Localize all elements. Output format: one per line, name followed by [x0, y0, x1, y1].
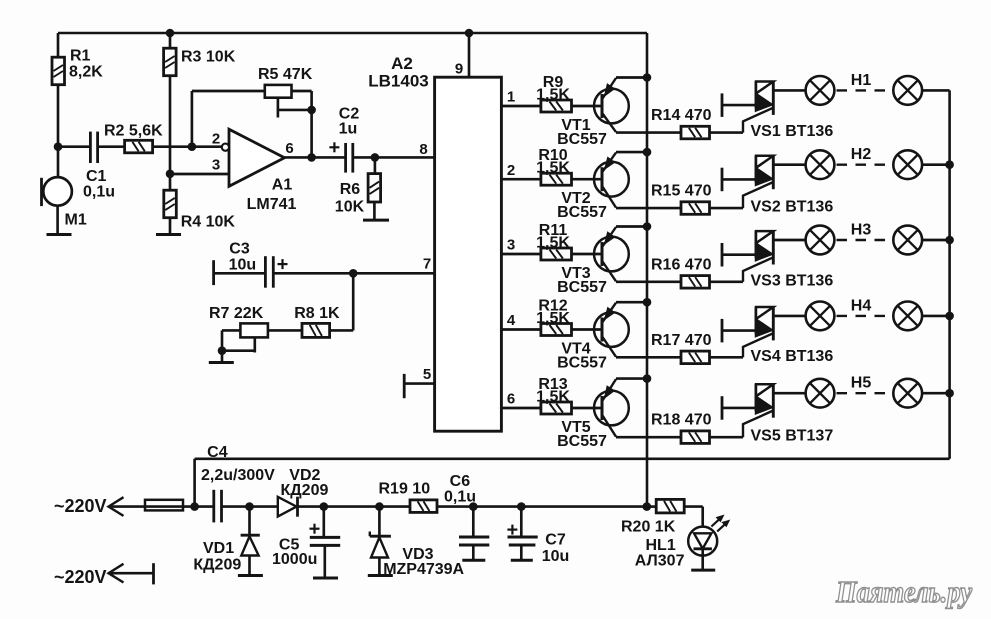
svg-text:8,2K: 8,2K: [69, 64, 103, 81]
svg-text:BC557: BC557: [557, 279, 607, 296]
capacitor C3: [264, 256, 267, 288]
svg-text:10u: 10u: [229, 257, 257, 274]
wire VT5 emitter to rail: [616, 377, 647, 380]
wire right supply rail vertical: [646, 33, 649, 507]
svg-text:4: 4: [507, 312, 516, 329]
wire VT4 emitter to rail: [616, 301, 647, 304]
wire R9 to VT1 base: [572, 105, 604, 108]
svg-text:BC557: BC557: [557, 355, 607, 372]
svg-text:1: 1: [507, 89, 515, 106]
capacitor C2: [344, 143, 347, 173]
ground under R4: [156, 233, 181, 236]
dashed wire H2: [837, 163, 892, 165]
svg-text:H5: H5: [851, 375, 872, 392]
svg-text:BC557: BC557: [557, 204, 607, 221]
resistor R19: [410, 500, 437, 513]
wire VT2 emitter to rail: [616, 151, 647, 154]
svg-text:1,5K: 1,5K: [536, 389, 570, 406]
svg-text:АЛ307: АЛ307: [635, 552, 685, 569]
node R6: [371, 153, 380, 162]
wire R16 to gate: [710, 280, 744, 283]
node emitter rail 1: [643, 73, 652, 82]
pin 5 stub: [404, 382, 434, 385]
resistor R20: [647, 505, 656, 508]
wire VT4 collector to R17: [616, 356, 681, 359]
svg-text:10K: 10K: [335, 199, 365, 216]
svg-text:H4: H4: [851, 297, 872, 314]
svg-text:VS5 BT137: VS5 BT137: [751, 428, 834, 445]
R5 wiper: [277, 98, 280, 118]
svg-text:9: 9: [455, 60, 463, 77]
svg-text:0,1u: 0,1u: [444, 488, 476, 505]
svg-text:1u: 1u: [339, 121, 358, 138]
transistor VT2: [594, 162, 629, 197]
svg-text:VS2 BT136: VS2 BT136: [751, 199, 834, 216]
node R5 wiper: [307, 106, 316, 115]
arrow terminal ~220V top: [109, 497, 124, 516]
resistor R5 (trimmer): [265, 85, 292, 98]
svg-text:LB1403: LB1403: [368, 72, 428, 91]
resistor R17: [681, 351, 710, 364]
capacitor C4: [195, 505, 214, 508]
LED HL1: [688, 527, 717, 556]
IC A2 LB1403: [435, 77, 502, 431]
resistor R11: [541, 248, 572, 260]
svg-text:C4: C4: [207, 444, 228, 461]
resistor R18: [681, 431, 710, 444]
capacitor C6: [472, 507, 475, 537]
resistor R8: [302, 323, 330, 337]
triac VS2: [755, 156, 758, 183]
node fuse / riser: [190, 502, 199, 511]
wire triac to lamp H5a: [773, 392, 806, 395]
svg-text:1,5K: 1,5K: [536, 160, 570, 177]
lamp H5a: [806, 379, 835, 408]
capacitor C5: [322, 507, 325, 538]
resistor R6: [374, 157, 377, 173]
wire lamp H3b to right rail: [922, 239, 950, 242]
wire R14 to gate: [710, 131, 744, 134]
wire IC pin 4: [501, 328, 541, 331]
svg-text:6: 6: [285, 140, 293, 157]
svg-text:R14 470: R14 470: [651, 107, 712, 124]
transistor VT4: [594, 312, 629, 347]
svg-text:R3 10K: R3 10K: [181, 49, 236, 66]
dashed wire H1: [837, 89, 892, 91]
wire R7 to ground: [222, 329, 240, 332]
wire M1 to C1: [58, 145, 90, 148]
lamp H2b: [893, 150, 922, 179]
svg-text:VD1: VD1: [203, 540, 234, 557]
diode VD2: [278, 497, 297, 517]
resistor R15: [681, 202, 710, 215]
zener VD3: [378, 507, 381, 537]
svg-text:5: 5: [423, 366, 431, 383]
lamp H3a: [806, 226, 835, 255]
svg-text:VS4 BT136: VS4 BT136: [751, 348, 834, 365]
svg-text:2: 2: [507, 162, 515, 179]
wire pin3: [170, 173, 229, 176]
wire C2 to pin 8: [353, 156, 435, 159]
resistor R12: [541, 324, 572, 336]
node C7: [517, 502, 526, 511]
wire C5 to VD3: [324, 505, 380, 508]
node R7 wiper ground: [218, 346, 227, 355]
svg-text:R4 10K: R4 10K: [181, 214, 236, 231]
svg-text:A2: A2: [391, 54, 413, 73]
wire VT2 collector to R15: [616, 207, 681, 210]
ground under R7: [209, 361, 234, 364]
ground under VD1: [238, 574, 263, 577]
ground under C7: [511, 559, 533, 562]
op-amp A1: [229, 129, 285, 186]
resistor R10: [541, 173, 572, 185]
wire R18 to gate: [710, 436, 744, 439]
plus C2: [329, 146, 339, 148]
lamp H4b: [893, 302, 922, 331]
resistor R13: [541, 402, 572, 414]
svg-text:1,5K: 1,5K: [536, 310, 570, 327]
svg-text:R8 1K: R8 1K: [294, 305, 340, 322]
LED arrows: [711, 518, 721, 527]
svg-text:8: 8: [419, 141, 427, 158]
wire VD3 to R19: [379, 505, 410, 508]
ground under VD3: [368, 574, 393, 577]
dashed wire H5: [837, 392, 892, 394]
node pin7 branch: [349, 269, 358, 278]
lamp H1b: [893, 76, 922, 105]
arrow terminal ~220V bottom: [109, 564, 124, 583]
svg-text:R15 470: R15 470: [651, 183, 712, 200]
lamp H4a: [806, 302, 835, 331]
lamp H3b: [893, 226, 922, 255]
transistor VT1: [594, 89, 629, 124]
terminal C3 left: [212, 260, 215, 285]
triac VS4: [755, 307, 758, 334]
node emitter rail 2: [643, 148, 652, 157]
svg-text:3: 3: [507, 237, 515, 254]
resistor R14: [681, 126, 710, 139]
wire R20 to HL1: [684, 505, 702, 508]
wire VT3 emitter to rail: [616, 225, 647, 228]
svg-text:~220V: ~220V: [54, 496, 107, 516]
node right rail H2: [945, 160, 954, 169]
wire R17 to gate: [710, 356, 744, 359]
resistor R9: [541, 100, 572, 112]
transistor VT5: [594, 391, 629, 426]
resistor R4: [164, 190, 177, 218]
wire R2 to op-amp pin2: [153, 145, 223, 148]
resistor R7 (trimmer): [240, 323, 268, 337]
terminal bar 220V: [152, 563, 155, 584]
svg-text:H2: H2: [851, 146, 872, 163]
wire IC pin 6: [501, 407, 541, 410]
node top wire / pin 9: [465, 29, 474, 38]
node emitter rail 3: [643, 222, 652, 231]
svg-text:R18 470: R18 470: [651, 412, 712, 429]
wire C7 to rail node: [521, 505, 647, 508]
resistor R1: [57, 33, 60, 57]
node VD1: [245, 502, 254, 511]
svg-text:R1: R1: [70, 48, 91, 65]
wire lamp H5b to right rail: [922, 392, 950, 395]
wire pin 9: [468, 33, 471, 77]
svg-text:H3: H3: [851, 222, 872, 239]
node emitter rail 4: [643, 298, 652, 307]
wire IC pin 2: [501, 178, 541, 181]
R7 wiper: [253, 337, 256, 352]
svg-text:C7: C7: [545, 531, 566, 548]
resistor R3: [169, 33, 172, 48]
triac VS3: [755, 231, 758, 258]
wire triac to lamp H2a: [773, 163, 806, 166]
wire R13 to VT5 base: [572, 407, 604, 410]
wire triac to lamp H1a: [773, 89, 806, 92]
plus C7: [507, 528, 517, 530]
diode VD1: [248, 507, 251, 536]
plus C3: [278, 263, 288, 265]
node VD3: [375, 502, 384, 511]
svg-text:КД209: КД209: [193, 557, 241, 574]
wire R10 to VT2 base: [572, 178, 604, 181]
resistor R2: [125, 140, 153, 153]
node right rail H4: [945, 312, 954, 321]
wire mains return line: [195, 457, 950, 460]
svg-text:R17 470: R17 470: [651, 332, 712, 349]
fuse FU1: [145, 500, 183, 511]
wire IC pin 1: [501, 105, 541, 108]
node op-amp output: [307, 153, 316, 162]
wire triac to lamp H4a: [773, 315, 806, 318]
svg-text:1000u: 1000u: [272, 551, 317, 568]
svg-text:R7 22K: R7 22K: [209, 305, 264, 322]
svg-text:10u: 10u: [542, 548, 570, 565]
node emitter rail 5: [643, 374, 652, 383]
wire R8 to R7: [268, 329, 302, 332]
node inverting input: [188, 142, 197, 151]
svg-text:BC557: BC557: [557, 433, 607, 450]
wire R5 to output: [292, 90, 312, 93]
svg-text:R2 5,6K: R2 5,6K: [104, 123, 163, 140]
node right rail H3: [945, 236, 954, 245]
wire R19 to C6: [437, 505, 473, 508]
svg-text:1,5K: 1,5K: [536, 235, 570, 252]
wire R12 to VT4 base: [572, 328, 604, 331]
wire R11 to VT3 base: [572, 253, 604, 256]
wire VD1 to VD2: [250, 505, 278, 508]
wire output to C2: [285, 156, 346, 159]
svg-text:~220V: ~220V: [54, 567, 107, 587]
node R3 R4 pin3: [166, 170, 175, 179]
ground under M1: [47, 233, 72, 236]
svg-text:R6: R6: [340, 181, 361, 198]
wire VT3 collector to R16: [616, 280, 681, 283]
wire to fuse: [109, 505, 145, 508]
svg-text:C3: C3: [229, 241, 250, 258]
svg-text:1,5K: 1,5K: [536, 87, 570, 104]
svg-text:LM741: LM741: [247, 196, 297, 213]
wire riser to return line: [193, 459, 196, 507]
svg-text:R19 10: R19 10: [379, 481, 431, 498]
wire to terminal bar: [109, 572, 154, 575]
wire C3 to pin 7: [273, 272, 434, 275]
svg-text:7: 7: [423, 255, 431, 272]
inverting input circle: [222, 144, 229, 151]
dashed wire H3: [837, 239, 892, 241]
wire VT1 emitter to rail: [616, 76, 647, 79]
svg-text:2: 2: [212, 130, 220, 147]
wire IC pin 3: [501, 253, 541, 256]
svg-text:КД209: КД209: [281, 482, 329, 499]
svg-text:3: 3: [212, 157, 220, 174]
svg-text:Паятель.ру: Паятель.ру: [835, 574, 972, 609]
svg-text:R16 470: R16 470: [651, 256, 712, 273]
wire lamp H2b to right rail: [922, 163, 950, 166]
ground under C5: [313, 577, 338, 580]
transistor VT3: [594, 237, 629, 272]
ground under HL1: [691, 569, 715, 572]
svg-text:BC557: BC557: [557, 131, 607, 148]
node M1/C1/R1: [54, 142, 63, 151]
node supply rail / DC bus: [643, 502, 652, 511]
svg-text:C1: C1: [86, 168, 107, 185]
ground under C6: [462, 559, 485, 562]
terminal pin 5: [403, 374, 406, 398]
lamp H5b: [893, 379, 922, 408]
wire VT5 collector to R18: [616, 436, 681, 439]
ground under R6: [363, 219, 389, 222]
wire top supply rail: [58, 32, 647, 35]
wire terminal to C3: [214, 272, 266, 275]
wire lamp H4b to right rail: [922, 315, 950, 318]
wire triac to lamp H3a: [773, 239, 806, 242]
svg-text:HL1: HL1: [646, 537, 676, 554]
node right rail H5: [945, 389, 954, 398]
svg-text:R20 1K: R20 1K: [621, 519, 676, 536]
dashed wire H4: [837, 315, 892, 317]
svg-text:M1: M1: [65, 212, 87, 229]
wire right lamp rail: [948, 90, 951, 458]
plus C5: [310, 528, 320, 530]
triac VS1: [755, 81, 758, 108]
svg-text:0,1u: 0,1u: [83, 184, 115, 201]
lamp H2a: [806, 150, 835, 179]
wire VT1 collector to R14: [616, 131, 681, 134]
microphone M1: [57, 147, 60, 178]
node C5: [320, 502, 329, 511]
svg-text:6: 6: [507, 391, 515, 408]
wire C6 to C7: [473, 505, 521, 508]
triac VS5: [755, 384, 758, 411]
svg-text:R5 47K: R5 47K: [258, 66, 313, 83]
resistor R16: [681, 276, 710, 289]
wire C1 to R2: [98, 145, 125, 148]
wire pin2 up to R5: [191, 91, 194, 147]
wire lamp H1b to right rail: [922, 89, 950, 92]
capacitor C1: [89, 132, 92, 163]
node top wire / R3: [166, 29, 175, 38]
wire down to R8: [352, 273, 355, 330]
svg-text:VS1 BT136: VS1 BT136: [751, 123, 834, 140]
wire R15 to gate: [710, 207, 744, 210]
svg-text:VS3 BT136: VS3 BT136: [751, 272, 834, 289]
svg-text:2,2u/300V: 2,2u/300V: [201, 467, 275, 484]
lamp H1a: [806, 76, 835, 105]
node C6: [469, 502, 478, 511]
svg-text:A1: A1: [272, 177, 293, 194]
svg-text:MZP4739A: MZP4739A: [383, 561, 464, 578]
capacitor C7: [520, 507, 523, 537]
svg-text:H1: H1: [851, 72, 872, 89]
